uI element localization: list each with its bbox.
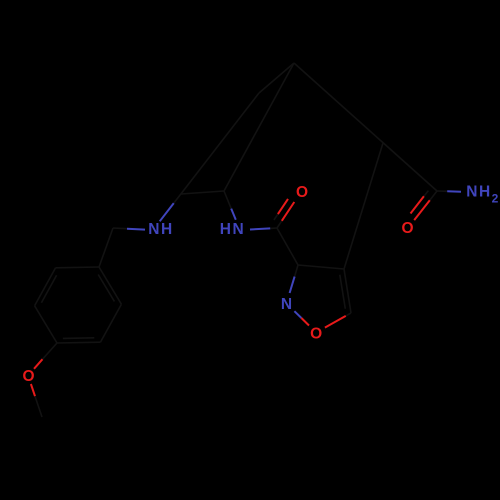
ring edge C-D bbox=[57, 341, 100, 344]
bond V1p-N3 gray half bbox=[224, 191, 231, 209]
bond C1=O1 second gray bbox=[274, 214, 278, 220]
ring edge B-C bbox=[100, 304, 121, 342]
bond C6=O3 gray end bbox=[430, 191, 437, 200]
bond C4-Q bbox=[344, 143, 383, 269]
bond N2-O2 red bbox=[301, 318, 309, 326]
bond C6-N4 gray bbox=[437, 190, 447, 192]
bond K1-T bbox=[259, 63, 294, 93]
ring edge A-B bbox=[99, 267, 121, 304]
bond C3-N2 gray bbox=[295, 265, 298, 277]
bond O4-CH3 gray half bbox=[35, 396, 42, 417]
bond C6-N4 blue bbox=[447, 190, 461, 192]
ring edge E-F bbox=[35, 268, 56, 306]
svg-text:N: N bbox=[281, 296, 292, 313]
svg-text:NH: NH bbox=[466, 184, 491, 201]
bond O4-ringD gray half bbox=[43, 343, 58, 359]
ring inner C-D bbox=[63, 337, 94, 340]
bond O4-ringD red half bbox=[34, 359, 43, 369]
bond O2-C5 gray bbox=[346, 313, 351, 316]
bond N2-O2 blue bbox=[294, 311, 301, 318]
svg-text:NH: NH bbox=[148, 221, 173, 238]
ring edge F-A bbox=[56, 266, 99, 269]
bond O2-C5 red bbox=[325, 316, 346, 328]
bond C4-C3 bbox=[298, 265, 344, 269]
svg-text:O: O bbox=[401, 220, 413, 237]
svg-text:HN: HN bbox=[220, 221, 245, 238]
ring inner E-F bbox=[41, 275, 56, 303]
bond V1-V1p bbox=[181, 191, 224, 194]
bond CH2-N1 gray half bbox=[113, 227, 127, 230]
bond V1 run to K1 bbox=[174, 93, 259, 203]
bond V1p-N3 blue half bbox=[231, 209, 236, 220]
bond CH2-N1 blue half bbox=[127, 228, 145, 231]
ring edge D-E bbox=[35, 306, 57, 343]
bond C5=C4 inner bbox=[340, 275, 346, 309]
bond O4-CH3 red half bbox=[31, 384, 35, 396]
svg-text:O: O bbox=[22, 368, 34, 385]
svg-text:2: 2 bbox=[492, 192, 499, 206]
bond T-C6 run bbox=[294, 63, 437, 191]
bond T-V1p bbox=[224, 63, 294, 191]
bond N3-C1 gray bbox=[270, 227, 277, 229]
bond C5=C4 main bbox=[344, 269, 351, 313]
bond C6=O3 second red bbox=[411, 196, 424, 213]
bond C6=O3 red bbox=[414, 200, 430, 220]
bond N3-C1 blue bbox=[250, 228, 270, 229]
ring inner A-B bbox=[98, 275, 114, 302]
svg-text:O: O bbox=[296, 184, 308, 201]
bond C1=O1 gray end bbox=[277, 221, 282, 228]
bond C1=O1 red bbox=[282, 202, 295, 221]
bond C1=O1 second red bbox=[278, 199, 288, 214]
svg-text:O: O bbox=[310, 325, 322, 342]
bond C3-N2 blue bbox=[290, 277, 295, 293]
bond C1-C3 bbox=[277, 228, 298, 265]
bond ringA-CH2 bbox=[99, 228, 113, 267]
bond N1-V1 blue bbox=[160, 203, 174, 221]
bond C6=O3 second gray bbox=[424, 191, 429, 197]
